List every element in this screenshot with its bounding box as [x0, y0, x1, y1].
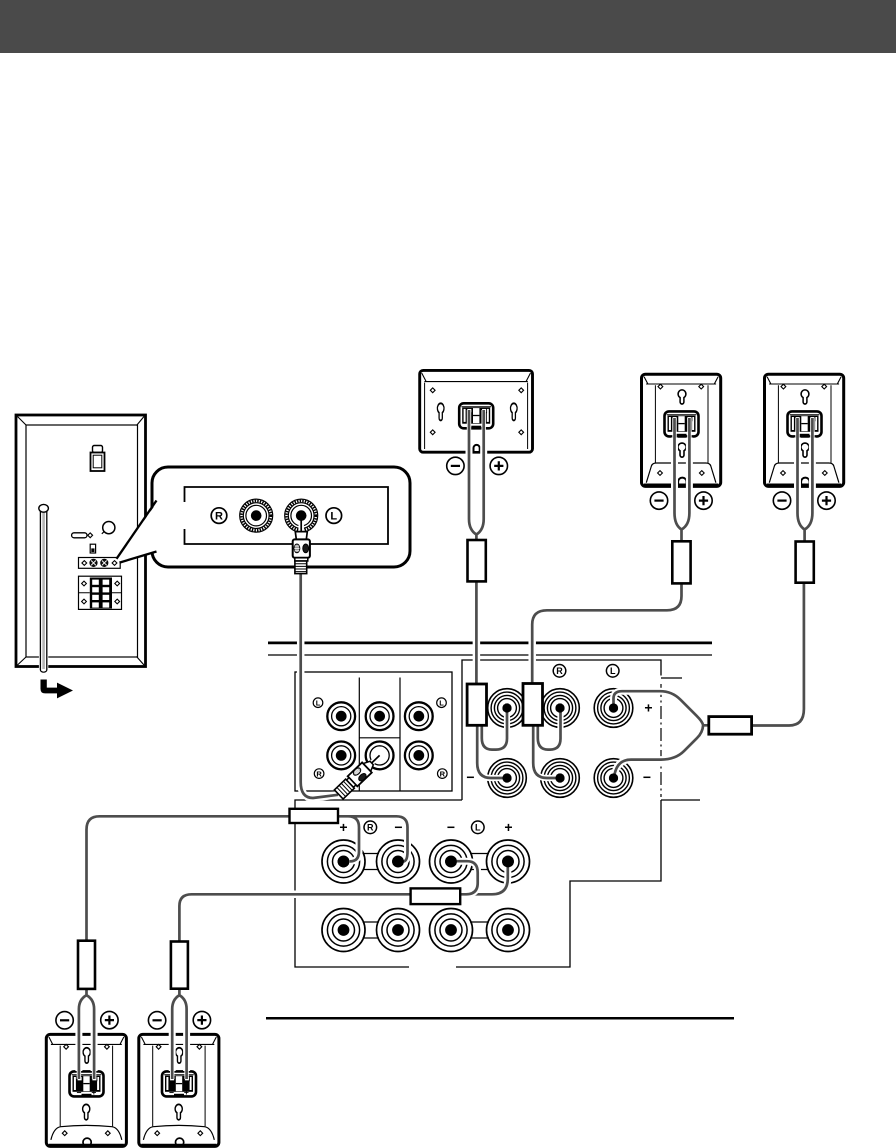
- FM wire antenna: [39, 504, 49, 673]
- FM antenna jack circle: [103, 522, 115, 534]
- front labels: [339, 819, 512, 835]
- svg-text:L: L: [439, 698, 444, 707]
- wire: front R speaker pair up to tag: [79, 989, 94, 1071]
- wire: L terminals Y-split: [614, 691, 711, 774]
- surround terminal box outline: [295, 660, 661, 967]
- surround labels: [553, 665, 619, 678]
- callout balloon: [152, 467, 410, 567]
- main unit inner frame: [26, 425, 138, 657]
- wire: surround L speaker pair down to tag: [798, 438, 813, 542]
- svg-text:L: L: [316, 698, 321, 707]
- wire: center speaker pair down to tag: [469, 430, 484, 540]
- cable tag: surround L speaker: [796, 542, 814, 583]
- cable tag: center at receiver: [467, 684, 486, 725]
- label R circled: [211, 508, 227, 524]
- RCA plug into monitor jack: [334, 750, 385, 799]
- svg-text:+: +: [339, 819, 347, 835]
- svg-text:R: R: [556, 666, 563, 676]
- label L circled: [326, 508, 342, 524]
- RCA jack L (magnified, with plug): [285, 499, 318, 532]
- bottom section rule: [266, 1017, 734, 1020]
- wire: surround L cable down and left to tag: [752, 583, 804, 726]
- AM loop plug: [72, 533, 87, 538]
- RCA box labels: [313, 698, 447, 778]
- surround speaker R (back view): [642, 374, 721, 486]
- center speaker polarity: [447, 457, 464, 474]
- RCA input box: [295, 672, 452, 791]
- wire: surround R split to R terminals: [533, 704, 560, 778]
- RCA box dividers: [359, 678, 400, 792]
- bent arrow: [41, 680, 74, 699]
- wire: center split to CENTER terminals: [477, 704, 507, 778]
- center speaker (top middle, back view): [420, 370, 533, 452]
- cable tag: front L at receiver: [411, 888, 461, 904]
- wire: front R cable up and right: [87, 816, 293, 940]
- cable tag: center speaker: [468, 540, 486, 581]
- wire: surround R cable into receiver: [532, 583, 681, 683]
- magnified jack plate: [185, 487, 389, 544]
- frame bevel corners: [18, 417, 145, 666]
- svg-text:−: −: [643, 769, 651, 785]
- panel dash-dot cut line: [660, 684, 662, 797]
- cable tag: front R speaker: [78, 941, 95, 989]
- surround terminals: L pair: [594, 689, 633, 728]
- svg-text:+: +: [504, 819, 512, 835]
- front terminal row 2: [322, 909, 365, 952]
- aux out terminal plate (magnified by callout): [79, 558, 121, 569]
- wire stubs through speaker clip blocks: [79, 410, 813, 1079]
- front terminal row 1: [322, 840, 365, 883]
- RCA plug in callout L jack: [293, 510, 310, 573]
- wire: front L speaker pair up to tag: [172, 989, 186, 1071]
- panel cut notches: [661, 678, 700, 800]
- main unit back panel outer frame: [16, 415, 146, 667]
- cable tag: surround R speaker: [672, 541, 690, 583]
- RCA jacks x6: [327, 702, 355, 730]
- surround terminals: center pair: [488, 689, 527, 728]
- surround terminals: R pair: [541, 689, 580, 728]
- wire: monitor cable from callout plug to RCA plug: [301, 573, 338, 798]
- svg-text:−: −: [466, 769, 474, 785]
- terminal center dots redraw: [338, 703, 619, 867]
- receiver top edge thin rule: [268, 654, 712, 656]
- cable tag: front R at receiver: [290, 809, 339, 823]
- cable tag: surround L at receiver: [709, 717, 752, 735]
- svg-text:L: L: [330, 511, 337, 523]
- wire: front L cable up and right: [179, 894, 478, 941]
- svg-text:L: L: [610, 666, 616, 676]
- callout tail: [117, 501, 158, 563]
- wire: center cable into receiver: [473, 581, 481, 684]
- fuse holder cap: [93, 446, 103, 453]
- cable tag: front L speaker: [171, 942, 188, 989]
- wire: front L split to -L/+L terminals: [457, 856, 508, 894]
- svg-text:R: R: [367, 823, 374, 833]
- speaker terminal block on main unit: [79, 576, 122, 609]
- svg-text:−: −: [394, 819, 402, 835]
- voltage switch: [90, 544, 95, 553]
- RCA jack R (magnified): [240, 499, 273, 532]
- svg-text:−: −: [447, 819, 455, 835]
- front speaker L (bottom, back view): [139, 1034, 219, 1146]
- surround speaker L (back view): [765, 374, 844, 486]
- fuse holder body: [91, 453, 105, 472]
- svg-text:R: R: [316, 769, 322, 778]
- wire: surround R speaker pair down to tag: [675, 438, 690, 542]
- cable tag: surround R at receiver: [523, 684, 543, 726]
- receiver top edge thick rule: [268, 642, 712, 645]
- wire: front R split to +R/-R terminals: [338, 816, 408, 861]
- terminal pair bridges: [363, 854, 490, 939]
- svg-text:L: L: [475, 823, 481, 833]
- svg-text:+: +: [644, 700, 652, 716]
- front speaker R (bottom left, back view): [46, 1034, 126, 1146]
- top title bar: [0, 0, 896, 53]
- svg-text:R: R: [440, 769, 446, 778]
- svg-text:R: R: [215, 511, 223, 523]
